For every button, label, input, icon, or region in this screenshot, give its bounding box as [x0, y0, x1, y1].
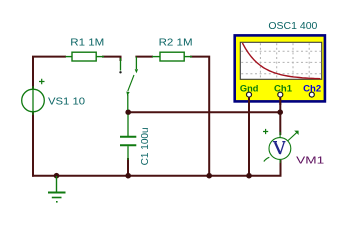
- svg-text:VM1: VM1: [296, 156, 325, 167]
- svg-text:Ch2: Ch2: [303, 83, 321, 93]
- svg-text:Ch1: Ch1: [274, 83, 292, 93]
- svg-text:R1 1M: R1 1M: [70, 38, 104, 49]
- svg-text:VS1 10: VS1 10: [48, 96, 85, 107]
- svg-text:Gnd: Gnd: [240, 83, 259, 93]
- svg-text:OSC1 400: OSC1 400: [268, 21, 317, 32]
- svg-text:C1 100u: C1 100u: [140, 127, 151, 165]
- svg-text:R2 1M: R2 1M: [159, 38, 193, 49]
